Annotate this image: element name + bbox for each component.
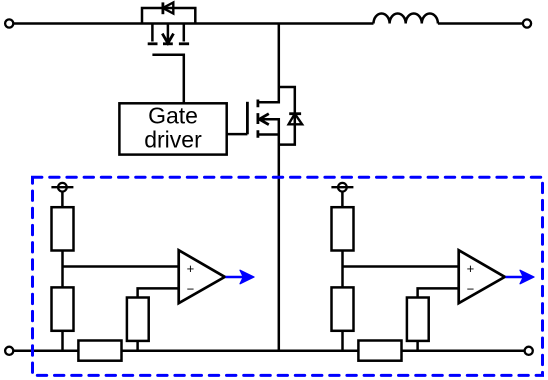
wire body-diode loop Q1 xyxy=(142,8,195,24)
transistor Q2 (low-side MOSFET) xyxy=(247,24,302,351)
node input terminal top-left xyxy=(5,19,13,27)
wire gate driver output to Q2 gate xyxy=(227,133,248,136)
wire bottom rail xyxy=(14,350,525,353)
wire op-amp output arrow (blue) xyxy=(226,276,245,278)
pin source stub Q1 xyxy=(183,24,186,42)
ground terminal bottom-left xyxy=(5,347,13,355)
pin body arrow Q1 xyxy=(167,24,170,41)
wire terminal to R5 xyxy=(341,192,344,208)
wire R5 to R6 with node xyxy=(341,251,344,288)
wire terminal to R1 xyxy=(61,192,64,208)
pin drain Q2 xyxy=(258,24,279,103)
pin source/body arrow Q2 xyxy=(261,119,279,134)
resistor R4 xyxy=(78,341,121,361)
wire op-amp output arrow 2 (blue) xyxy=(506,276,525,278)
wire R6 bottom to rail xyxy=(341,331,344,351)
wire R2 bottom to rail xyxy=(61,331,64,351)
sense block right xyxy=(331,183,534,361)
resistor R8 xyxy=(358,341,401,361)
resistor R2 xyxy=(52,287,74,330)
label Gate driver text xyxy=(144,103,202,153)
svg-text:+: + xyxy=(467,261,475,276)
svg-text:−: − xyxy=(467,281,475,296)
wire top rail right segment xyxy=(438,22,523,25)
resistor R5 xyxy=(332,207,354,250)
wire R3 top to op-amp - input xyxy=(138,288,179,297)
diode D1 (body diode of Q1) xyxy=(163,2,173,14)
inductor L1 xyxy=(374,13,438,23)
wire node to op-amp + input xyxy=(63,265,179,268)
node output terminal top-right xyxy=(523,19,531,27)
pin source stub Q2 xyxy=(258,133,279,136)
node sense terminal xyxy=(58,183,67,192)
svg-text:driver: driver xyxy=(144,127,202,153)
op-amp U2 xyxy=(179,250,225,303)
pin gate Q1 xyxy=(152,55,183,104)
resistor R7 xyxy=(407,298,429,341)
svg-text:−: − xyxy=(187,281,195,296)
wire top rail left segment xyxy=(14,22,374,25)
wire R7 bottom to rail xyxy=(416,341,419,351)
op-amp U1 box gate driver xyxy=(119,103,226,154)
resistor R6 xyxy=(332,287,354,330)
wire R3 bottom to rail xyxy=(136,341,139,351)
wire node to op-amp + input xyxy=(343,265,459,268)
svg-text:+: + xyxy=(187,261,195,276)
transistor Q1 (high-side MOSFET) xyxy=(142,2,195,103)
channel bars Q2 xyxy=(256,100,259,138)
resistor R1 xyxy=(52,207,74,250)
sense block left xyxy=(51,183,254,361)
ground terminal bottom-right xyxy=(525,347,533,355)
wire body-diode loop Q2 xyxy=(279,87,295,145)
pin gate bar Q2 xyxy=(246,102,249,135)
diode D2 (body diode of Q2) xyxy=(289,114,303,125)
wire Q2 source down to bottom rail xyxy=(278,135,281,351)
resistor R3 xyxy=(127,298,149,341)
node dashed measurement boundary box xyxy=(33,177,543,375)
pin drain stub Q1 xyxy=(151,24,154,42)
svg-text:Gate: Gate xyxy=(148,103,198,129)
node sense terminal 2 xyxy=(338,183,347,192)
wire R1 to R2 with node xyxy=(61,251,64,288)
op-amp U3 xyxy=(459,250,505,303)
wire R7 top to op-amp - input xyxy=(418,288,459,297)
